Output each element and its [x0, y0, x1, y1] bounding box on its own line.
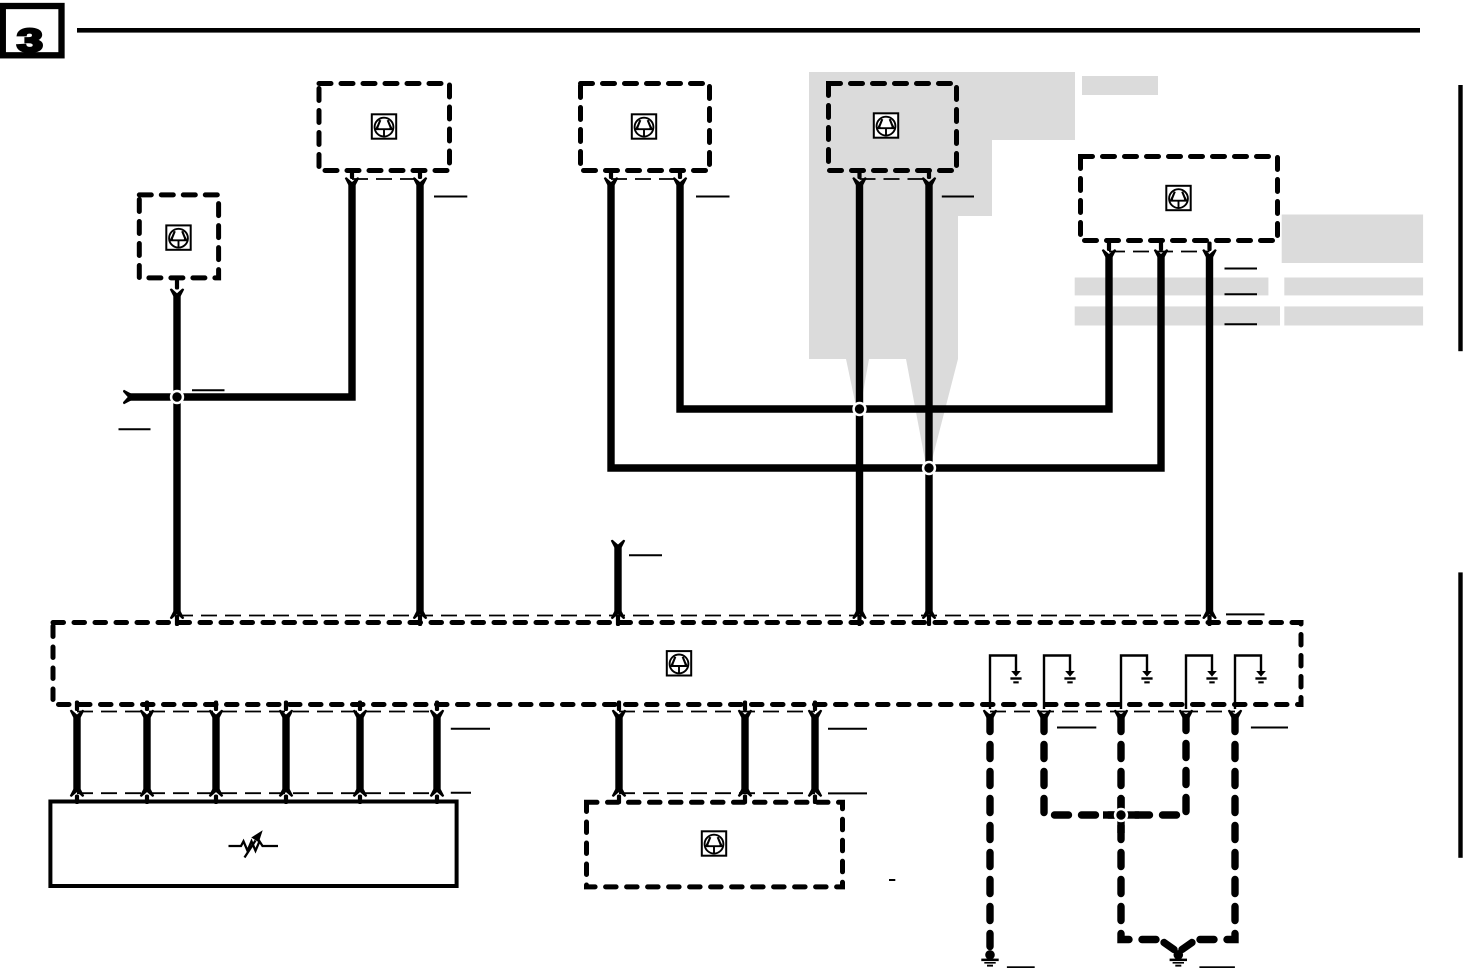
svg-text:3: 3 [17, 23, 43, 58]
